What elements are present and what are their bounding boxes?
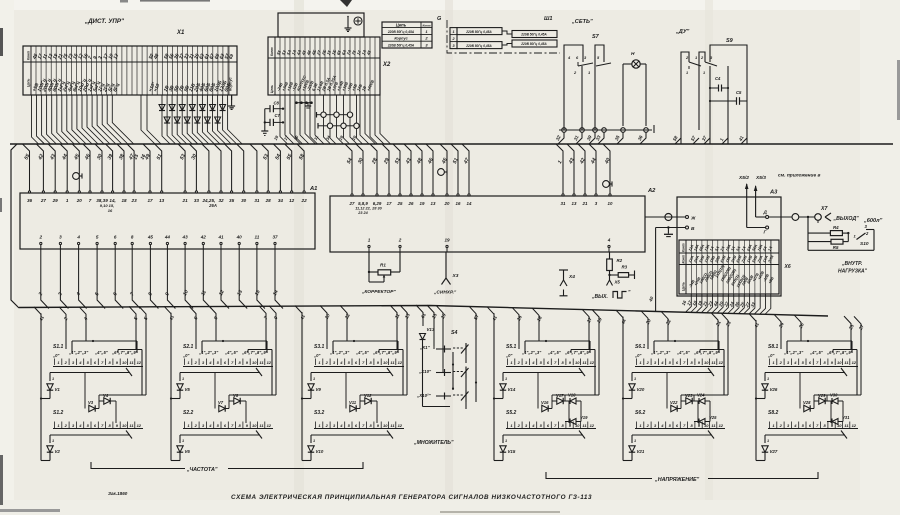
svg-text:10: 10	[608, 201, 613, 206]
svg-text:12: 12	[852, 360, 857, 365]
svg-text:10: 10	[704, 360, 709, 365]
svg-text:26: 26	[408, 201, 414, 206]
svg-text:42: 42	[200, 235, 207, 240]
svg-text:12: 12	[590, 360, 595, 365]
svg-text:1: 1	[182, 377, 184, 381]
svg-text:17: 17	[387, 201, 392, 206]
svg-text:V2: V2	[55, 449, 61, 454]
svg-text:Цепь: Цепь	[682, 282, 686, 291]
svg-text:V15: V15	[508, 449, 516, 454]
svg-text:12: 12	[267, 423, 272, 428]
svg-text:H: H	[631, 51, 635, 57]
svg-text:220В 50Гц 0,45А: 220В 50Гц 0,45А	[387, 43, 415, 47]
svg-text:4: 4	[607, 238, 611, 243]
svg-text:X1: X1	[176, 30, 185, 36]
svg-text:220В 50Гц 0,45А: 220В 50Гц 0,45А	[387, 30, 415, 34]
svg-text:V13: V13	[427, 327, 435, 332]
svg-text:„СИНХР.": „СИНХР."	[433, 290, 457, 296]
svg-text:Конт: Конт	[270, 47, 274, 56]
svg-text:13: 13	[159, 198, 165, 203]
svg-text:S5.2: S5.2	[506, 410, 517, 416]
svg-text:31: 31	[254, 198, 260, 203]
svg-text:26А: 26А	[208, 203, 217, 208]
svg-text:18: 18	[121, 198, 127, 203]
svg-text:21: 21	[582, 201, 588, 206]
svg-text:20: 20	[444, 201, 450, 206]
svg-text:S1.2: S1.2	[53, 410, 64, 416]
svg-text:V1: V1	[55, 387, 61, 392]
svg-text:„4"„5": „4"„5"	[547, 350, 562, 355]
svg-text:X7: X7	[820, 206, 828, 212]
svg-text:Г: Г	[764, 230, 767, 235]
svg-text:V14: V14	[508, 387, 516, 392]
svg-text:2: 2	[39, 235, 43, 240]
svg-text:X4: X4	[568, 274, 575, 280]
svg-text:1: 1	[66, 198, 69, 203]
svg-text:220В 50Гц 0,45А: 220В 50Гц 0,45А	[465, 30, 492, 34]
svg-text:„ДУ": „ДУ"	[675, 29, 690, 35]
svg-text:1: 1	[767, 439, 769, 443]
svg-text:Конт: Конт	[27, 51, 31, 60]
svg-text:V7: V7	[218, 400, 224, 405]
svg-text:V21: V21	[637, 449, 645, 454]
svg-text:X3: X3	[452, 273, 459, 279]
svg-text:23 24: 23 24	[357, 211, 368, 215]
svg-text:27: 27	[40, 198, 47, 203]
svg-text:30: 30	[241, 198, 247, 203]
svg-text:31: 31	[561, 201, 566, 206]
svg-text:17: 17	[147, 198, 153, 203]
svg-text:V4: V4	[103, 393, 109, 398]
svg-text:5: 5	[96, 235, 99, 240]
svg-text:1: 1	[52, 439, 54, 443]
svg-text:X2: X2	[382, 62, 391, 68]
svg-text:12: 12	[398, 360, 403, 365]
svg-text:„0": „0"	[767, 353, 775, 358]
svg-text:37: 37	[272, 235, 278, 240]
svg-text:10: 10	[383, 360, 388, 365]
svg-text:S10: S10	[860, 241, 869, 247]
svg-text:34: 34	[278, 198, 284, 203]
svg-text:V16: V16	[541, 400, 549, 405]
svg-text:10: 10	[575, 360, 580, 365]
svg-text:2: 2	[398, 238, 402, 243]
svg-text:„4"„5": „4"„5"	[676, 350, 691, 355]
svg-text:V30: V30	[830, 393, 838, 398]
svg-text:V27: V27	[770, 449, 778, 454]
svg-text:16: 16	[456, 201, 461, 206]
svg-text:S6.1: S6.1	[635, 344, 646, 350]
svg-text:R5: R5	[833, 245, 839, 250]
svg-text:1: 1	[767, 377, 769, 381]
svg-text:19: 19	[444, 238, 450, 243]
svg-text:10: 10	[837, 360, 842, 365]
svg-text:„6"„7"„8"„9": „6"„7"„8"„9"	[372, 350, 400, 355]
svg-text:„X10²": „X10²"	[416, 393, 431, 398]
svg-text:10: 10	[122, 423, 127, 428]
svg-text:16: 16	[108, 208, 113, 213]
svg-text:„0": „0"	[52, 353, 60, 358]
svg-text:12: 12	[137, 423, 142, 428]
svg-text:13: 13	[431, 201, 436, 206]
svg-text:R3: R3	[622, 265, 628, 270]
svg-text:S2.1: S2.1	[183, 344, 194, 350]
svg-text:G: G	[437, 16, 442, 22]
svg-text:1: 1	[52, 377, 54, 381]
svg-text:11,12 22,: 11,12 22,	[355, 207, 371, 211]
svg-text:„6"„7"„8"„9": „6"„7"„8"„9"	[826, 350, 854, 355]
svg-text:„4"„5": „4"„5"	[355, 350, 370, 355]
svg-text:„X10": „X10"	[418, 369, 432, 374]
svg-text:28 30: 28 30	[371, 207, 382, 211]
svg-text:„ДИСТ. УПР": „ДИСТ. УПР"	[84, 18, 124, 25]
svg-text:„4"„5": „4"„5"	[224, 350, 239, 355]
svg-text:7: 7	[89, 198, 92, 203]
svg-text:21: 21	[182, 198, 189, 203]
svg-text:3: 3	[59, 235, 62, 240]
svg-text:„1"„2"„3": „1"„2"„3"	[521, 350, 542, 355]
svg-text:V29: V29	[818, 393, 826, 398]
svg-text:4: 4	[76, 235, 80, 240]
svg-text:S6.2: S6.2	[635, 410, 646, 416]
svg-text:1: 1	[368, 238, 371, 243]
svg-text:V8: V8	[233, 393, 239, 398]
svg-text:1: 1	[505, 377, 507, 381]
svg-text:8: 8	[131, 235, 134, 240]
svg-text:СХЕМА ЭЛЕКТРИЧЕСКАЯ ПРИНЦИПИ: СХЕМА ЭЛЕКТРИЧЕСКАЯ ПРИНЦИПИАЛЬНАЯ ГЕНЕР…	[231, 494, 592, 501]
svg-text:12: 12	[719, 360, 724, 365]
svg-text:„0": „0"	[182, 353, 190, 358]
svg-text:„0": „0"	[505, 353, 513, 358]
svg-text:S7: S7	[592, 34, 600, 40]
svg-text:X5: X5	[614, 280, 621, 285]
svg-text:„X1": „X1"	[419, 345, 431, 350]
svg-text:V23: V23	[685, 393, 693, 398]
svg-text:V26: V26	[770, 387, 778, 392]
svg-text:28: 28	[265, 198, 272, 203]
svg-text:S8.1: S8.1	[768, 344, 779, 350]
svg-text:12: 12	[289, 198, 295, 203]
svg-text:40: 40	[236, 235, 243, 240]
svg-text:22: 22	[301, 198, 308, 203]
svg-text:10: 10	[252, 360, 257, 365]
svg-text:Конт: Конт	[682, 255, 686, 264]
svg-text:41: 41	[217, 235, 224, 240]
svg-text:X6: X6	[784, 264, 791, 270]
svg-text:Цепь: Цепь	[270, 85, 274, 93]
svg-text:S1.1: S1.1	[53, 344, 64, 350]
svg-text:S4: S4	[451, 330, 457, 336]
svg-text:1: 1	[703, 71, 705, 75]
svg-text:10: 10	[383, 423, 388, 428]
svg-text:НАГРУЗКА": НАГРУЗКА"	[838, 269, 868, 275]
svg-text:23: 23	[131, 198, 138, 203]
svg-text:S3.1: S3.1	[314, 344, 325, 350]
svg-text:A2: A2	[647, 188, 656, 194]
svg-text:10: 10	[122, 360, 127, 365]
svg-text:„КОРРЕКТОР": „КОРРЕКТОР"	[361, 289, 396, 295]
svg-text:S2.2: S2.2	[183, 410, 194, 416]
svg-text:1: 1	[313, 439, 315, 443]
svg-text:см. приложение в: см. приложение в	[778, 174, 820, 179]
svg-text:12: 12	[852, 423, 857, 428]
svg-text:C5: C5	[736, 90, 742, 95]
svg-text:29: 29	[52, 198, 59, 203]
svg-text:„ВЫХОД": „ВЫХОД"	[833, 216, 860, 222]
svg-text:10: 10	[252, 423, 257, 428]
svg-text:X5/2: X5/2	[738, 175, 749, 181]
svg-text:„6"„7"„8"„9": „6"„7"„8"„9"	[693, 350, 721, 355]
svg-text:11: 11	[255, 235, 260, 240]
svg-text:„1"„2"„3": „1"„2"„3"	[783, 350, 804, 355]
svg-text:„6"„7"„8"„9": „6"„7"„8"„9"	[564, 350, 592, 355]
svg-text:45: 45	[147, 235, 154, 240]
svg-text:14: 14	[467, 201, 472, 206]
svg-text:1: 1	[313, 377, 315, 381]
svg-text:12: 12	[719, 423, 724, 428]
svg-text:„1"„2"„3": „1"„2"„3"	[68, 350, 89, 355]
svg-text:32: 32	[218, 198, 224, 203]
svg-text:„ВЫХ.: „ВЫХ.	[591, 294, 608, 300]
svg-text:R1: R1	[380, 263, 386, 268]
svg-text:V5: V5	[185, 387, 191, 392]
svg-text:6,29: 6,29	[373, 201, 382, 206]
svg-text:„ВНУТР.: „ВНУТР.	[841, 261, 862, 267]
svg-text:V22: V22	[670, 400, 678, 405]
svg-text:1: 1	[182, 439, 184, 443]
svg-text:S9: S9	[726, 38, 734, 44]
svg-text:„1"„2"„3": „1"„2"„3"	[650, 350, 671, 355]
svg-text:V10: V10	[316, 449, 324, 454]
svg-text:S5.1: S5.1	[506, 344, 517, 350]
svg-text:6: 6	[114, 235, 117, 240]
svg-text:12: 12	[267, 360, 272, 365]
svg-text:V6: V6	[185, 449, 191, 454]
svg-text:V3: V3	[88, 400, 94, 405]
svg-text:„1"„2"„3": „1"„2"„3"	[329, 350, 350, 355]
svg-text:220В 50Гц 0,45А: 220В 50Гц 0,45А	[520, 42, 547, 46]
svg-text:„0": „0"	[634, 353, 642, 358]
svg-text:„6"„7"„8"„9": „6"„7"„8"„9"	[111, 350, 139, 355]
svg-text:36: 36	[27, 198, 33, 203]
svg-text:220В 50Гц 0,45А: 220В 50Гц 0,45А	[520, 33, 547, 37]
svg-text:V28: V28	[803, 400, 811, 405]
svg-text:13: 13	[572, 201, 577, 206]
svg-text:Корпус: Корпус	[228, 76, 233, 91]
svg-text:V20: V20	[637, 387, 645, 392]
svg-text:V9: V9	[316, 387, 322, 392]
svg-text:Цепь: Цепь	[27, 79, 31, 87]
svg-text:1: 1	[452, 30, 454, 34]
svg-text:V11: V11	[349, 400, 357, 405]
svg-text:25: 25	[397, 201, 403, 206]
svg-text:27: 27	[349, 201, 355, 206]
svg-text:„4"„5": „4"„5"	[94, 350, 109, 355]
svg-text:1: 1	[634, 439, 636, 443]
svg-text:Ж: Ж	[690, 216, 696, 222]
svg-text:C8: C8	[274, 101, 280, 106]
svg-text:V18: V18	[568, 393, 576, 398]
svg-text:X5/3: X5/3	[755, 175, 766, 181]
svg-text:Зак.1860: Зак.1860	[108, 491, 128, 496]
svg-text:S3.2: S3.2	[314, 410, 325, 416]
svg-text:„СЕТЬ": „СЕТЬ"	[571, 19, 593, 25]
svg-text:Корпус: Корпус	[394, 37, 408, 41]
svg-text:12: 12	[590, 423, 595, 428]
svg-text:220В 50Гц 0,45А: 220В 50Гц 0,45А	[465, 44, 492, 48]
svg-text:R4: R4	[833, 225, 839, 230]
svg-text:5,8,9: 5,8,9	[358, 201, 368, 206]
svg-text:A1: A1	[309, 186, 317, 192]
svg-text:„6"„7"„8"„9": „6"„7"„8"„9"	[241, 350, 269, 355]
svg-text:V24: V24	[697, 393, 705, 398]
svg-text:„ЧАСТОТА": „ЧАСТОТА"	[186, 467, 218, 473]
svg-text:„4"„5": „4"„5"	[809, 350, 824, 355]
svg-text:43: 43	[182, 235, 189, 240]
svg-text:12: 12	[398, 423, 403, 428]
svg-text:1: 1	[505, 439, 507, 443]
svg-text:Д: Д	[763, 210, 768, 215]
svg-text:„1"„2"„3": „1"„2"„3"	[198, 350, 219, 355]
svg-text:C4: C4	[715, 76, 721, 81]
svg-text:R2: R2	[617, 258, 623, 263]
svg-text:20: 20	[76, 198, 83, 203]
svg-text:35: 35	[229, 198, 235, 203]
svg-text:Ш1: Ш1	[544, 16, 552, 22]
svg-text:1: 1	[634, 377, 636, 381]
svg-text:Цепь: Цепь	[396, 23, 407, 28]
svg-text:19: 19	[420, 201, 425, 206]
svg-text:44: 44	[164, 235, 171, 240]
svg-text:В: В	[691, 226, 695, 232]
svg-text:„0": „0"	[313, 353, 321, 358]
svg-text:„НАПРЯЖЕНИЕ": „НАПРЯЖЕНИЕ"	[654, 477, 700, 483]
svg-text:Конт: Конт	[682, 243, 686, 252]
svg-text:12: 12	[137, 360, 142, 365]
svg-text:„МНОЖИТЕЛЬ": „МНОЖИТЕЛЬ"	[413, 440, 454, 446]
svg-text:S8.2: S8.2	[768, 410, 779, 416]
svg-text:V17: V17	[556, 393, 564, 398]
svg-text:A3: A3	[769, 190, 778, 196]
svg-text:1: 1	[686, 71, 688, 75]
svg-text:V12: V12	[364, 393, 372, 398]
svg-text:Конт: Конт	[422, 23, 430, 27]
svg-text:33: 33	[194, 198, 200, 203]
